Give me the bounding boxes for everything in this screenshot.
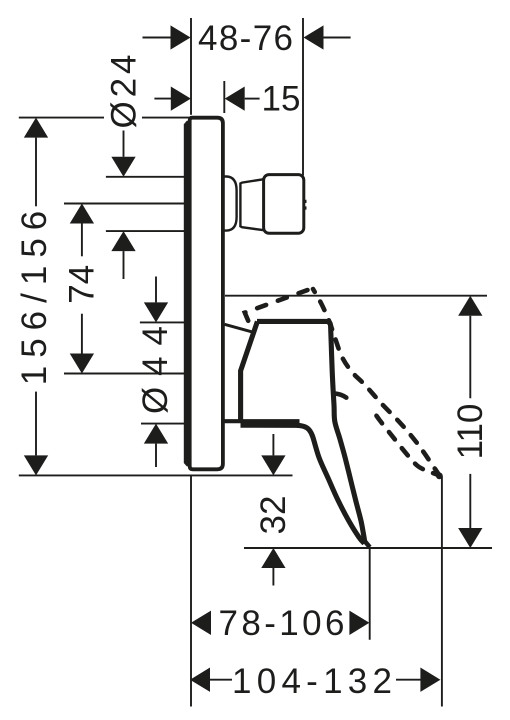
dashed lever: inner edge: [371, 408, 437, 475]
wire: extension line x=441.9 below dashed tip: [441, 476, 443, 707]
node: dim 156/156 top arrowhead: [24, 118, 48, 138]
svg-text:32: 32: [254, 496, 293, 535]
wire: reference line knob bottom y=231.1: [106, 230, 184, 232]
wire: dim Ø44 upper stem: [155, 277, 157, 303]
svg-text:15: 15: [262, 80, 301, 119]
dimension 32: [254, 434, 293, 586]
node: dim 104-132 right arrowhead: [420, 668, 440, 692]
wire: dim 48-76 right stem: [322, 37, 351, 39]
node: dim 74 top arrowhead: [70, 204, 94, 224]
wire: dim 74 lower stem: [81, 314, 83, 354]
node: dim 104-132 left arrowhead: [190, 668, 210, 692]
wire: reference line handle sleeve bottom y=423.6: [141, 423, 184, 425]
dimension 104-132: [190, 662, 440, 701]
handle: base left slant and vertical edge: [241, 321, 258, 420]
knob cap nubs: [304, 200, 307, 210]
dashed lever: upper edge: [245, 289, 312, 321]
wire: dim Ø24 lower stem: [123, 251, 125, 279]
node: dim 110 top arrowhead (up): [458, 296, 482, 316]
wire: reference line plate top y=117.6 (right of label): [142, 117, 189, 119]
handle: top edge, right edge and inner grip curve: [257, 321, 365, 542]
node: dim 110 bottom arrowhead (down): [458, 528, 482, 548]
wire: extension line knob right x=303 top: [302, 18, 304, 176]
wire: dim 110 upper stem: [469, 316, 471, 399]
svg-text:Ø24: Ø24: [105, 55, 144, 129]
dimension 74: [63, 204, 102, 374]
wire: dim 32 lower stem: [272, 568, 274, 586]
wire: dim 32 upper stem: [272, 434, 274, 455]
dimension 78-106: [191, 604, 369, 643]
wire: reference line lever up tip y=295.7: [225, 295, 487, 297]
svg-text:74: 74: [63, 265, 102, 304]
dashed lever: outer lower edge: [313, 289, 439, 474]
wire: dim 15 left stem: [154, 98, 172, 100]
handle: base bottom edge: [224, 419, 300, 423]
node: dim 74 bottom arrowhead: [70, 354, 94, 374]
node: dim Ø24 upper arrowhead (down): [111, 157, 135, 177]
wire: dim 156/156 upper stem: [35, 138, 37, 207]
wire: reference line handle tip y=548: [244, 547, 492, 549]
wire: reference line knob top y=176.8: [106, 176, 184, 178]
wire: dim Ø24 upper stem: [123, 131, 125, 157]
node: dim Ø44 upper arrowhead (down): [144, 302, 168, 322]
svg-text:78-106: 78-106: [219, 604, 345, 643]
dimension Ø24: [105, 55, 144, 280]
svg-text:110: 110: [451, 404, 490, 460]
handle: grip tip beak: [364, 540, 370, 547]
node: dim 15 left arrowhead: [171, 86, 191, 110]
dimension 110: [225, 296, 490, 548]
wire: reference line knob center y=203.5: [64, 203, 184, 205]
handle: grip outer curve: [241, 425, 365, 543]
wire: reference line plate top y=117.6 (left of label): [19, 117, 104, 119]
svg-text:Ø44: Ø44: [136, 326, 175, 414]
wire: extension line plate right x=224.3: [223, 81, 225, 113]
knob collar bulge: [224, 177, 237, 231]
wire: extension line wall front x=191 top: [190, 18, 192, 115]
node: dim 156/156 bottom arrowhead: [24, 455, 48, 475]
wire: dim 48-76 left stem: [143, 37, 173, 39]
wire: extension line x=369.7 below handle tip: [369, 548, 371, 640]
wire: reference line plate bottom y=475.4: [19, 474, 293, 476]
escutcheon plate body: [190, 118, 223, 470]
dimension Ø44: [136, 277, 175, 468]
node: dim 48-76 right arrowhead: [304, 25, 324, 49]
node: dim 48-76 left arrowhead: [171, 25, 191, 49]
wire: reference line 74 bottom y=373.5: [64, 373, 184, 375]
knob neck (tapered body): [240, 179, 263, 230]
svg-text:48-76: 48-76: [198, 19, 293, 58]
wire: dim 104-132 right stem: [396, 679, 421, 681]
wire: dim 156/156 lower stem: [35, 392, 37, 456]
escutcheon plate back flange (thick left band): [184, 121, 192, 467]
svg-text:104-132: 104-132: [232, 662, 392, 701]
wire: extension line x=191 bottom: [190, 475, 192, 706]
wire: dim 104-132 left stem: [210, 679, 232, 681]
node: dim 32 lower arrowhead (up): [261, 548, 285, 568]
node: dim 32 upper arrowhead (down): [261, 455, 285, 475]
wire: dim 110 lower stem: [469, 474, 471, 528]
wire: reference line handle top y=322.4: [140, 321, 184, 323]
node: dim 78-106 right arrowhead: [349, 611, 369, 635]
handle: plate-to-base top connector: [225, 324, 254, 332]
wire: dim 15 right stem: [245, 98, 260, 100]
wire: dim Ø44 lower stem: [155, 444, 157, 467]
handle: spout tab: [334, 393, 346, 397]
svg-text:156/156: 156/156: [15, 203, 54, 386]
knob end cap: [264, 175, 304, 234]
dimension 156/156: [15, 118, 54, 476]
node: dim Ø44 lower arrowhead (up): [144, 424, 168, 444]
node: dim Ø24 lower arrowhead (up): [111, 231, 135, 251]
wire: dim 74 upper stem: [81, 224, 83, 257]
dashed lever: tip dot: [436, 472, 443, 479]
node: dim 78-106 left arrowhead: [191, 611, 211, 635]
node: dim 15 right arrowhead: [225, 86, 245, 110]
